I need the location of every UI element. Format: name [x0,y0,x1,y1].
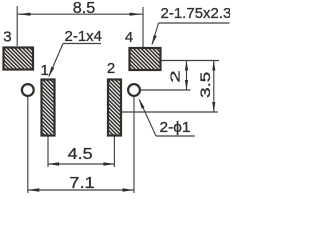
extension line from right circle center [141,89,191,91]
arrowhead right of dim 4.5 [103,162,114,165]
svg-text:2-1.75x2.3: 2-1.75x2.3 [161,5,231,22]
dimension line 4.5 [48,163,114,165]
leader line to right circle [140,100,157,136]
svg-text:2: 2 [169,70,183,83]
extension line below left circle [27,97,29,194]
hole circle left [22,84,34,96]
extension line right of dim 8.5 [142,7,144,47]
pad 3 (hatched rectangle) [4,48,34,70]
pad 4 (hatched rectangle) [130,48,161,70]
svg-text:2-ϕ1: 2-ϕ1 [160,119,191,136]
svg-text:7.1: 7.1 [69,175,95,192]
arrowhead up of dim 3.5 [212,61,215,71]
leader arrowhead at slot 1 [49,67,55,78]
svg-text:2-1x4: 2-1x4 [65,28,103,45]
slot 2 (hatched rectangle) [108,80,121,136]
svg-text:4.5: 4.5 [68,146,93,163]
hole circle right [128,84,140,96]
svg-text:8.5: 8.5 [73,0,96,17]
leader line to slot 1 [49,44,63,77]
dimension line 2 (vertical) [186,61,188,91]
leader arrowhead at pad 4 [152,35,157,46]
extension line lower (bottom of body) [122,111,219,113]
arrowhead left of dim 4.5 [48,162,59,165]
extension line below slot 2 [113,137,115,168]
svg-text:2: 2 [107,60,115,77]
leader underline for 2-1.75x2.3 [159,22,230,24]
arrowhead down of dim 3.5 [212,102,215,112]
arrowhead down of dim 2 [185,80,188,90]
dimension line 3.5 (vertical) [213,61,215,113]
leader line to pad 4 [152,23,158,44]
leader underline for 2-1x4 [63,43,101,45]
slot 1 (hatched rectangle) [42,80,55,136]
arrowhead right of dim 8.5 [130,13,143,16]
extension line below slot 1 [47,137,49,168]
arrowhead left of dim 8.5 [18,13,31,16]
extension line below right circle [133,97,135,194]
arrowhead right of dim 7.1 [123,188,135,191]
extension line from pad 4 centerline (right) [162,60,220,62]
arrowhead left of dim 7.1 [28,188,40,191]
svg-text:3.5: 3.5 [198,72,213,98]
extension line left of dim 8.5 [16,6,18,46]
leader arrowhead at right circle [139,98,145,109]
svg-text:1: 1 [41,62,49,79]
leader underline for 2-phi1 [156,135,195,137]
svg-text:4: 4 [125,29,133,46]
arrowhead up of dim 2 [185,61,188,71]
dimension line 8.5 [18,13,143,15]
dimension line 7.1 [28,189,134,191]
svg-text:3: 3 [3,29,11,46]
